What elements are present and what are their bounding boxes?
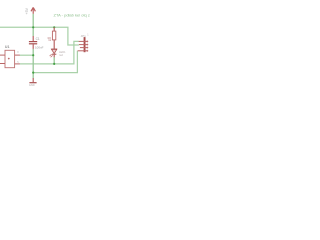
wire U1 output to JP1 pin 1 (20, 41, 79, 64)
svg-text:1k: 1k (48, 38, 51, 42)
svg-text:+5V: +5V (25, 7, 29, 14)
connector JP1 pin 1 (79, 40, 89, 42)
wire top VCC rail (0, 27, 79, 45)
connector JP1 pin end ticks (86, 40, 88, 51)
connector JP1 bar (84, 37, 86, 52)
svg-text:JP1: JP1 (81, 34, 87, 38)
svg-text:8: 8 (17, 51, 19, 54)
wire LED bottom to output net (53, 57, 55, 64)
wire vertical VCC/C1/GND column (32, 14, 34, 36)
svg-text:1: 1 (87, 34, 89, 37)
connector JP1 pin 3 (80, 47, 88, 49)
svg-text:ZTA - pdlab kel otq ze: ZTA - pdlab kel otq ze (54, 12, 91, 17)
U1 left pin lower (0, 63, 5, 65)
U1 right pin upper (15, 54, 20, 56)
wire ground stem green part (32, 73, 34, 79)
capacitor C1 plates (29, 41, 37, 42)
wire GND lower rail (33, 51, 77, 73)
resistor R2 top stub (53, 27, 55, 31)
LED1 triangle (51, 49, 57, 54)
wire U1 top pin to C1/GND node (20, 54, 34, 56)
resistor R2 bottom stub to LED (53, 40, 55, 49)
svg-text:GND: GND (29, 83, 35, 87)
LED1 cathode bar (52, 54, 56, 55)
node junction on rail at VCC column (32, 26, 34, 28)
svg-text:C1: C1 (36, 37, 40, 41)
ground symbol bar (29, 82, 36, 83)
ground symbol stem (32, 78, 34, 82)
node junction on rail at R2 (53, 26, 55, 28)
svg-text:100nF: 100nF (35, 45, 44, 49)
connector JP1 pin 2 (79, 44, 88, 46)
U1 right pin lower (15, 63, 20, 65)
LED1 anode top edge (51, 48, 57, 50)
connector JP1 pin 4 (78, 50, 89, 52)
U1 left pin upper (0, 54, 5, 56)
oscillator U1 body (5, 50, 15, 67)
node junction U1 top pin / GND column (32, 54, 34, 56)
U1 plus mark (8, 58, 10, 60)
resistor R2 body (52, 31, 55, 40)
LED1 bottom stub (53, 55, 55, 58)
node junction lower rail start (32, 72, 34, 74)
node junction LED / output wire (53, 63, 55, 65)
power +5V arrow symbol (31, 7, 35, 13)
capacitor C1 stubs (32, 36, 34, 41)
svg-text:red: red (59, 53, 63, 57)
LED1 emission arrows (50, 54, 53, 57)
svg-text:U1: U1 (5, 45, 10, 49)
